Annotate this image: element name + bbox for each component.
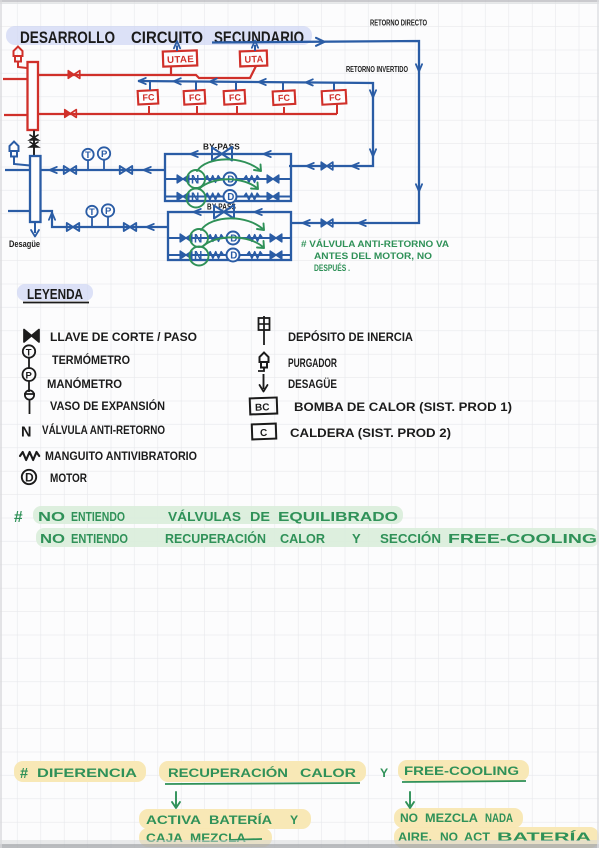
svg-text:Y: Y	[290, 813, 298, 827]
motor/pump M2.2	[227, 249, 240, 262]
bottom highlight: # diferencia	[14, 761, 146, 782]
anti-vibration sleeve 1.1b	[244, 176, 259, 182]
wire UTAE drop	[170, 66, 172, 75]
svg-text:NADA: NADA	[485, 811, 513, 825]
green annotation: válvula anti-retorno note	[301, 238, 449, 274]
pump branch 2.1	[168, 232, 291, 246]
valve branch 1.1 inlet	[177, 175, 189, 183]
svg-text:BATERÍA: BATERÍA	[209, 812, 272, 827]
bottom highlight: recuperación calor	[159, 761, 366, 782]
svg-text:D: D	[230, 250, 237, 261]
fan-coil FC1	[138, 90, 159, 105]
svg-text:BOMBA DE CALOR (SIST. PROD: BOMBA DE CALOR (SIST. PROD 1)	[294, 400, 512, 414]
legend symbol: desagüe arrow	[260, 374, 268, 392]
wire UTAE riser to retorno directo	[176, 46, 178, 52]
svg-text:MANÓMETRO: MANÓMETRO	[47, 377, 122, 391]
drain desagüe arrow	[34, 222, 36, 233]
wire purgador to manifold (red)	[18, 61, 27, 68]
svg-text:N: N	[194, 233, 202, 245]
arrow down on retorno invertido drop (lower)	[370, 149, 376, 156]
motor/pump M2.1	[227, 232, 240, 245]
wire red return line (fan-coils)	[38, 113, 337, 115]
bypass valve (group 1)	[212, 147, 232, 161]
svg-text:FC: FC	[189, 92, 202, 103]
svg-text:T: T	[89, 207, 95, 218]
wire retorno directo (top run)	[212, 41, 419, 223]
pump branch 2.2	[168, 249, 291, 263]
legend symbol: vaso de expansión	[24, 390, 35, 414]
bottom highlight: activa batería	[139, 809, 311, 829]
arrow left on group 2 top edge right	[255, 209, 262, 215]
arrow left on retorno invertido (3)	[210, 79, 217, 85]
note highlight (no entiendo line 2)	[36, 528, 599, 547]
svg-text:#: #	[20, 766, 28, 782]
svg-text:ENTIENDO: ENTIENDO	[71, 531, 128, 546]
arrow left on retorno invertido (1)	[139, 78, 146, 84]
valve branch 2.2 outlet	[270, 251, 282, 259]
green arrow arc 2.1	[201, 218, 264, 230]
green arrow arc 1.2	[199, 179, 258, 189]
pump group 2 enclosure	[168, 212, 291, 260]
bypass valve (group 2)	[214, 205, 234, 219]
svg-text:D: D	[230, 233, 237, 244]
arrow left on group 2 top edge	[194, 209, 201, 215]
pump branch 1.1	[165, 173, 291, 187]
svg-text:RECUPERACIÓN: RECUPERACIÓN	[165, 531, 266, 546]
green circle around N 2.2	[190, 247, 209, 266]
thermometer T (supply 1)	[82, 149, 93, 170]
valve llave de corte (group 1 return)	[321, 162, 333, 170]
wire FC3 to red return	[236, 106, 238, 114]
svg-text:N: N	[191, 192, 199, 204]
svg-text:MOTOR: MOTOR	[50, 471, 87, 485]
wire branch 1.1	[165, 178, 291, 180]
wire blue inlet stub lower-left	[8, 210, 30, 212]
svg-text:BC: BC	[255, 402, 270, 413]
svg-text:T: T	[85, 150, 91, 161]
fan-coil FC3	[224, 90, 246, 105]
valve llave de corte (supply 1, near pumps)	[120, 166, 132, 174]
valve llave de corte (return 2, near manifold)	[67, 223, 79, 231]
svg-text:TERMÓMETRO: TERMÓMETRO	[52, 353, 130, 367]
valve branch 2.1 outlet	[270, 234, 282, 242]
wire purgador to manifold (blue)	[14, 156, 30, 166]
valve branch 1.2 outlet	[267, 193, 279, 201]
svg-text:P: P	[105, 206, 112, 217]
green arrow down (left)	[172, 792, 180, 808]
svg-text:MEZCLA: MEZCLA	[425, 811, 478, 825]
balancing connector between manifolds (black)	[30, 131, 38, 156]
green arrow down (right)	[406, 792, 414, 808]
svg-text:NO: NO	[40, 531, 65, 546]
underline recuperación calor	[165, 783, 360, 784]
svg-text:NO: NO	[38, 509, 65, 524]
arrow up on return jog	[49, 213, 55, 220]
anti-vibration sleeve 2.1b	[247, 235, 262, 241]
svg-text:UTA: UTA	[244, 54, 263, 66]
svg-text:VÁLVULAS: VÁLVULAS	[168, 509, 241, 524]
svg-text:ACTIVA: ACTIVA	[146, 813, 201, 827]
green arrow arc 1.1	[197, 159, 261, 171]
svg-text:LLAVE DE CORTE / PASO: LLAVE DE CORTE / PASO	[50, 330, 197, 344]
green arrow arc 2.2	[202, 237, 264, 248]
svg-text:Desagüe: Desagüe	[9, 239, 40, 249]
wire FC3 riser	[235, 82, 237, 90]
svg-text:EQUILIBRADO: EQUILIBRADO	[278, 509, 398, 524]
svg-text:MANGUITO ANTIVIBRATORIO: MANGUITO ANTIVIBRATORIO	[45, 449, 197, 463]
svg-text:DESARROLLO: DESARROLLO	[20, 28, 115, 47]
anti-vibration sleeve 2.1a	[208, 235, 223, 241]
svg-text:FC: FC	[229, 92, 242, 103]
fan-coil FC2	[184, 90, 206, 105]
motor/pump M1.2	[224, 190, 237, 203]
manifold colector primario (red)	[28, 62, 39, 130]
wire FC5 to red return	[336, 104, 338, 114]
valve llave de corte (red return)	[65, 110, 77, 118]
wire FC4 riser	[282, 82, 284, 90]
wire red inlet stub upper-left	[3, 78, 28, 80]
svg-text:# VÁLVULA ANTI-RETORNO VA: # VÁLVULA ANTI-RETORNO VA	[301, 238, 449, 250]
legend symbol: manómetro	[23, 368, 36, 392]
pump group 1 enclosure	[165, 154, 291, 201]
anti-vibration sleeve 2.2b	[247, 252, 262, 258]
svg-text:P: P	[101, 149, 108, 160]
legend symbol: C box	[252, 424, 277, 440]
wire return from pump group 2 to manifold	[41, 211, 169, 227]
wire red supply to UTAE / UTA	[38, 66, 256, 78]
green circle around N 1.1	[187, 170, 205, 188]
svg-text:FREE-COOLING: FREE-COOLING	[448, 531, 597, 546]
title highlight	[6, 26, 312, 45]
pump branch 1.2	[165, 190, 291, 204]
svg-text:N: N	[191, 174, 199, 186]
arrow left on retorno directo bottom run	[359, 220, 366, 226]
svg-text:SECCIÓN: SECCIÓN	[380, 531, 441, 546]
arrow left (return 2, near pumps)	[147, 224, 154, 230]
wire FC2 riser	[195, 82, 197, 91]
svg-text:RETORNO INVERTIDO: RETORNO INVERTIDO	[346, 65, 408, 74]
wire UTA riser to retorno directo	[254, 45, 256, 51]
anti-vibration sleeve 1.2a	[205, 193, 220, 199]
svg-text:DIFERENCIA: DIFERENCIA	[37, 766, 137, 780]
arrow left after valve (group 2 return)	[303, 220, 310, 226]
svg-text:LEYENDA: LEYENDA	[27, 286, 83, 303]
svg-text:C: C	[260, 428, 268, 439]
svg-text:P: P	[26, 370, 33, 381]
motor/pump M1.1	[224, 173, 237, 186]
arrow left on retorno invertido (4)	[259, 79, 266, 85]
green circle around N 2.1	[190, 229, 208, 247]
svg-text:N: N	[194, 250, 202, 262]
arrow left near manifold (supply 1)	[50, 167, 57, 173]
svg-text:FC: FC	[329, 92, 342, 103]
svg-text:VASO DE EXPANSIÓN: VASO DE EXPANSIÓN	[50, 399, 165, 413]
valve llave de corte (return 2, near pumps)	[124, 223, 136, 231]
wire blue inlet stub upper-left	[5, 169, 30, 171]
valve llave de corte (supply 1, near manifold)	[64, 166, 76, 174]
bottom highlight: aire no act batería	[394, 827, 599, 848]
svg-text:DE: DE	[250, 509, 270, 524]
wire branch 2.2	[168, 254, 291, 256]
wire retorno invertido run	[138, 81, 373, 166]
svg-text:DESAGÜE: DESAGÜE	[288, 377, 337, 391]
svg-text:D: D	[227, 192, 234, 203]
green circle around N 1.2	[187, 189, 206, 208]
svg-text:CALOR: CALOR	[300, 766, 356, 780]
air vent purgador (blue, secondary manifold)	[10, 142, 19, 157]
air vent purgador (red, primary manifold)	[14, 47, 23, 62]
anti-vibration sleeve 1.1a	[205, 176, 220, 182]
wire supply to pump group 1	[41, 169, 166, 171]
svg-text:UTAE: UTAE	[167, 54, 194, 66]
fan-coil FC4	[273, 90, 296, 105]
svg-text:FC: FC	[142, 92, 155, 103]
svg-text:T: T	[26, 347, 32, 358]
wire FC5 riser	[333, 83, 335, 90]
wire FC1 riser to retorno invertido	[149, 81, 151, 90]
svg-text:SECUNDARIO: SECUNDARIO	[214, 28, 304, 47]
arrow left after valve (group 1 return)	[307, 163, 314, 169]
valve branch 1.2 inlet	[177, 193, 189, 201]
arrow down on retorno directo right drop (upper)	[416, 64, 422, 71]
svg-text:NO: NO	[400, 811, 418, 825]
AHU box UTA	[240, 51, 268, 67]
legend title underline	[23, 302, 89, 304]
svg-text:RETORNO DIRECTO: RETORNO DIRECTO	[370, 19, 427, 28]
arrow left (supply 1, near pumps)	[144, 167, 151, 173]
svg-text:ENTIENDO: ENTIENDO	[71, 509, 125, 524]
underline free-cooling	[402, 781, 526, 782]
manifold colector secundario (blue)	[30, 156, 41, 222]
svg-text:PURGADOR: PURGADOR	[288, 356, 337, 370]
wire FC1 to red return	[148, 106, 150, 114]
bottom highlight: no mezcla nada	[394, 808, 523, 828]
arrow up UTA riser	[252, 41, 258, 48]
wire branch 1.2	[165, 195, 291, 197]
svg-text:D: D	[25, 471, 34, 485]
wire FC4 to red return	[283, 107, 285, 114]
svg-text:N: N	[21, 425, 31, 441]
svg-text:CALDERA (SIST. PROD 2): CALDERA (SIST. PROD 2)	[290, 426, 451, 440]
anti-vibration sleeve 1.2b	[244, 193, 259, 199]
legend symbol: motor	[22, 470, 36, 485]
svg-text:DEPÓSITO DE INERCIA: DEPÓSITO DE INERCIA	[288, 330, 413, 344]
arrow down on retorno invertido drop	[370, 90, 376, 97]
valve branch 2.2 inlet	[180, 251, 192, 259]
svg-text:CIRCUITO: CIRCUITO	[131, 28, 203, 47]
fan-coil FC5	[322, 90, 347, 105]
legend symbol: termómetro	[23, 345, 35, 369]
manometer P (supply 1)	[98, 147, 110, 170]
legend title highlight	[17, 284, 93, 301]
AHU box UTAE	[163, 50, 198, 66]
arrow down on retorno directo right drop (lower)	[416, 184, 422, 191]
dash after caja mezcla	[229, 839, 262, 840]
arrow up UTAE riser	[174, 41, 180, 48]
valve llave de corte (red supply)	[68, 71, 80, 79]
svg-text:DESPUÉS .: DESPUÉS .	[314, 262, 350, 274]
bottom highlight: caja mezcla	[139, 828, 272, 847]
svg-text:Y: Y	[352, 531, 361, 546]
legend symbol: BC box	[250, 398, 278, 415]
valve llave de corte (group 2 return)	[321, 219, 333, 227]
svg-text:CALOR: CALOR	[280, 531, 326, 546]
svg-text:VÁLVULA ANTI-RETORNO: VÁLVULA ANTI-RETORNO	[42, 423, 165, 437]
thermometer T (return 2)	[86, 206, 97, 227]
anti-vibration sleeve 2.2a	[208, 252, 223, 258]
wire red inlet stub lower-left	[4, 114, 28, 116]
arrow left on group 1 return run	[352, 163, 359, 169]
arrow left on group 1 top edge	[191, 151, 198, 157]
svg-text:ANTES DEL MOTOR, NO: ANTES DEL MOTOR, NO	[314, 251, 433, 262]
valve branch 2.1 inlet	[180, 234, 192, 242]
legend symbol: depósito de inercia	[259, 316, 270, 345]
photo edge shading	[0, 0, 599, 2]
manometer P (return 2)	[102, 204, 114, 227]
svg-text:#: #	[14, 509, 23, 526]
svg-text:FC: FC	[278, 93, 291, 104]
arrow on retorno directo top run	[316, 38, 325, 46]
legend symbol: manguito antivibratorio	[20, 452, 39, 460]
bottom highlight: free-cooling	[398, 760, 529, 781]
wire branch 2.1	[168, 237, 291, 239]
legend symbol: llave de corte	[24, 330, 39, 343]
wire FC2 to red return	[196, 106, 198, 114]
arrow left on group 1 top edge right	[264, 151, 271, 157]
note highlight (no entiendo line 1)	[33, 506, 403, 524]
svg-text:Y: Y	[380, 766, 388, 780]
svg-text:FREE-COOLING: FREE-COOLING	[404, 764, 519, 778]
valve branch 1.1 outlet	[267, 175, 279, 183]
arrow left on retorno invertido (2)	[174, 78, 181, 84]
svg-text:BY-PASS: BY-PASS	[203, 142, 240, 152]
legend symbol: purgador	[258, 353, 269, 372]
svg-text:RECUPERACIÓN: RECUPERACIÓN	[168, 765, 288, 780]
